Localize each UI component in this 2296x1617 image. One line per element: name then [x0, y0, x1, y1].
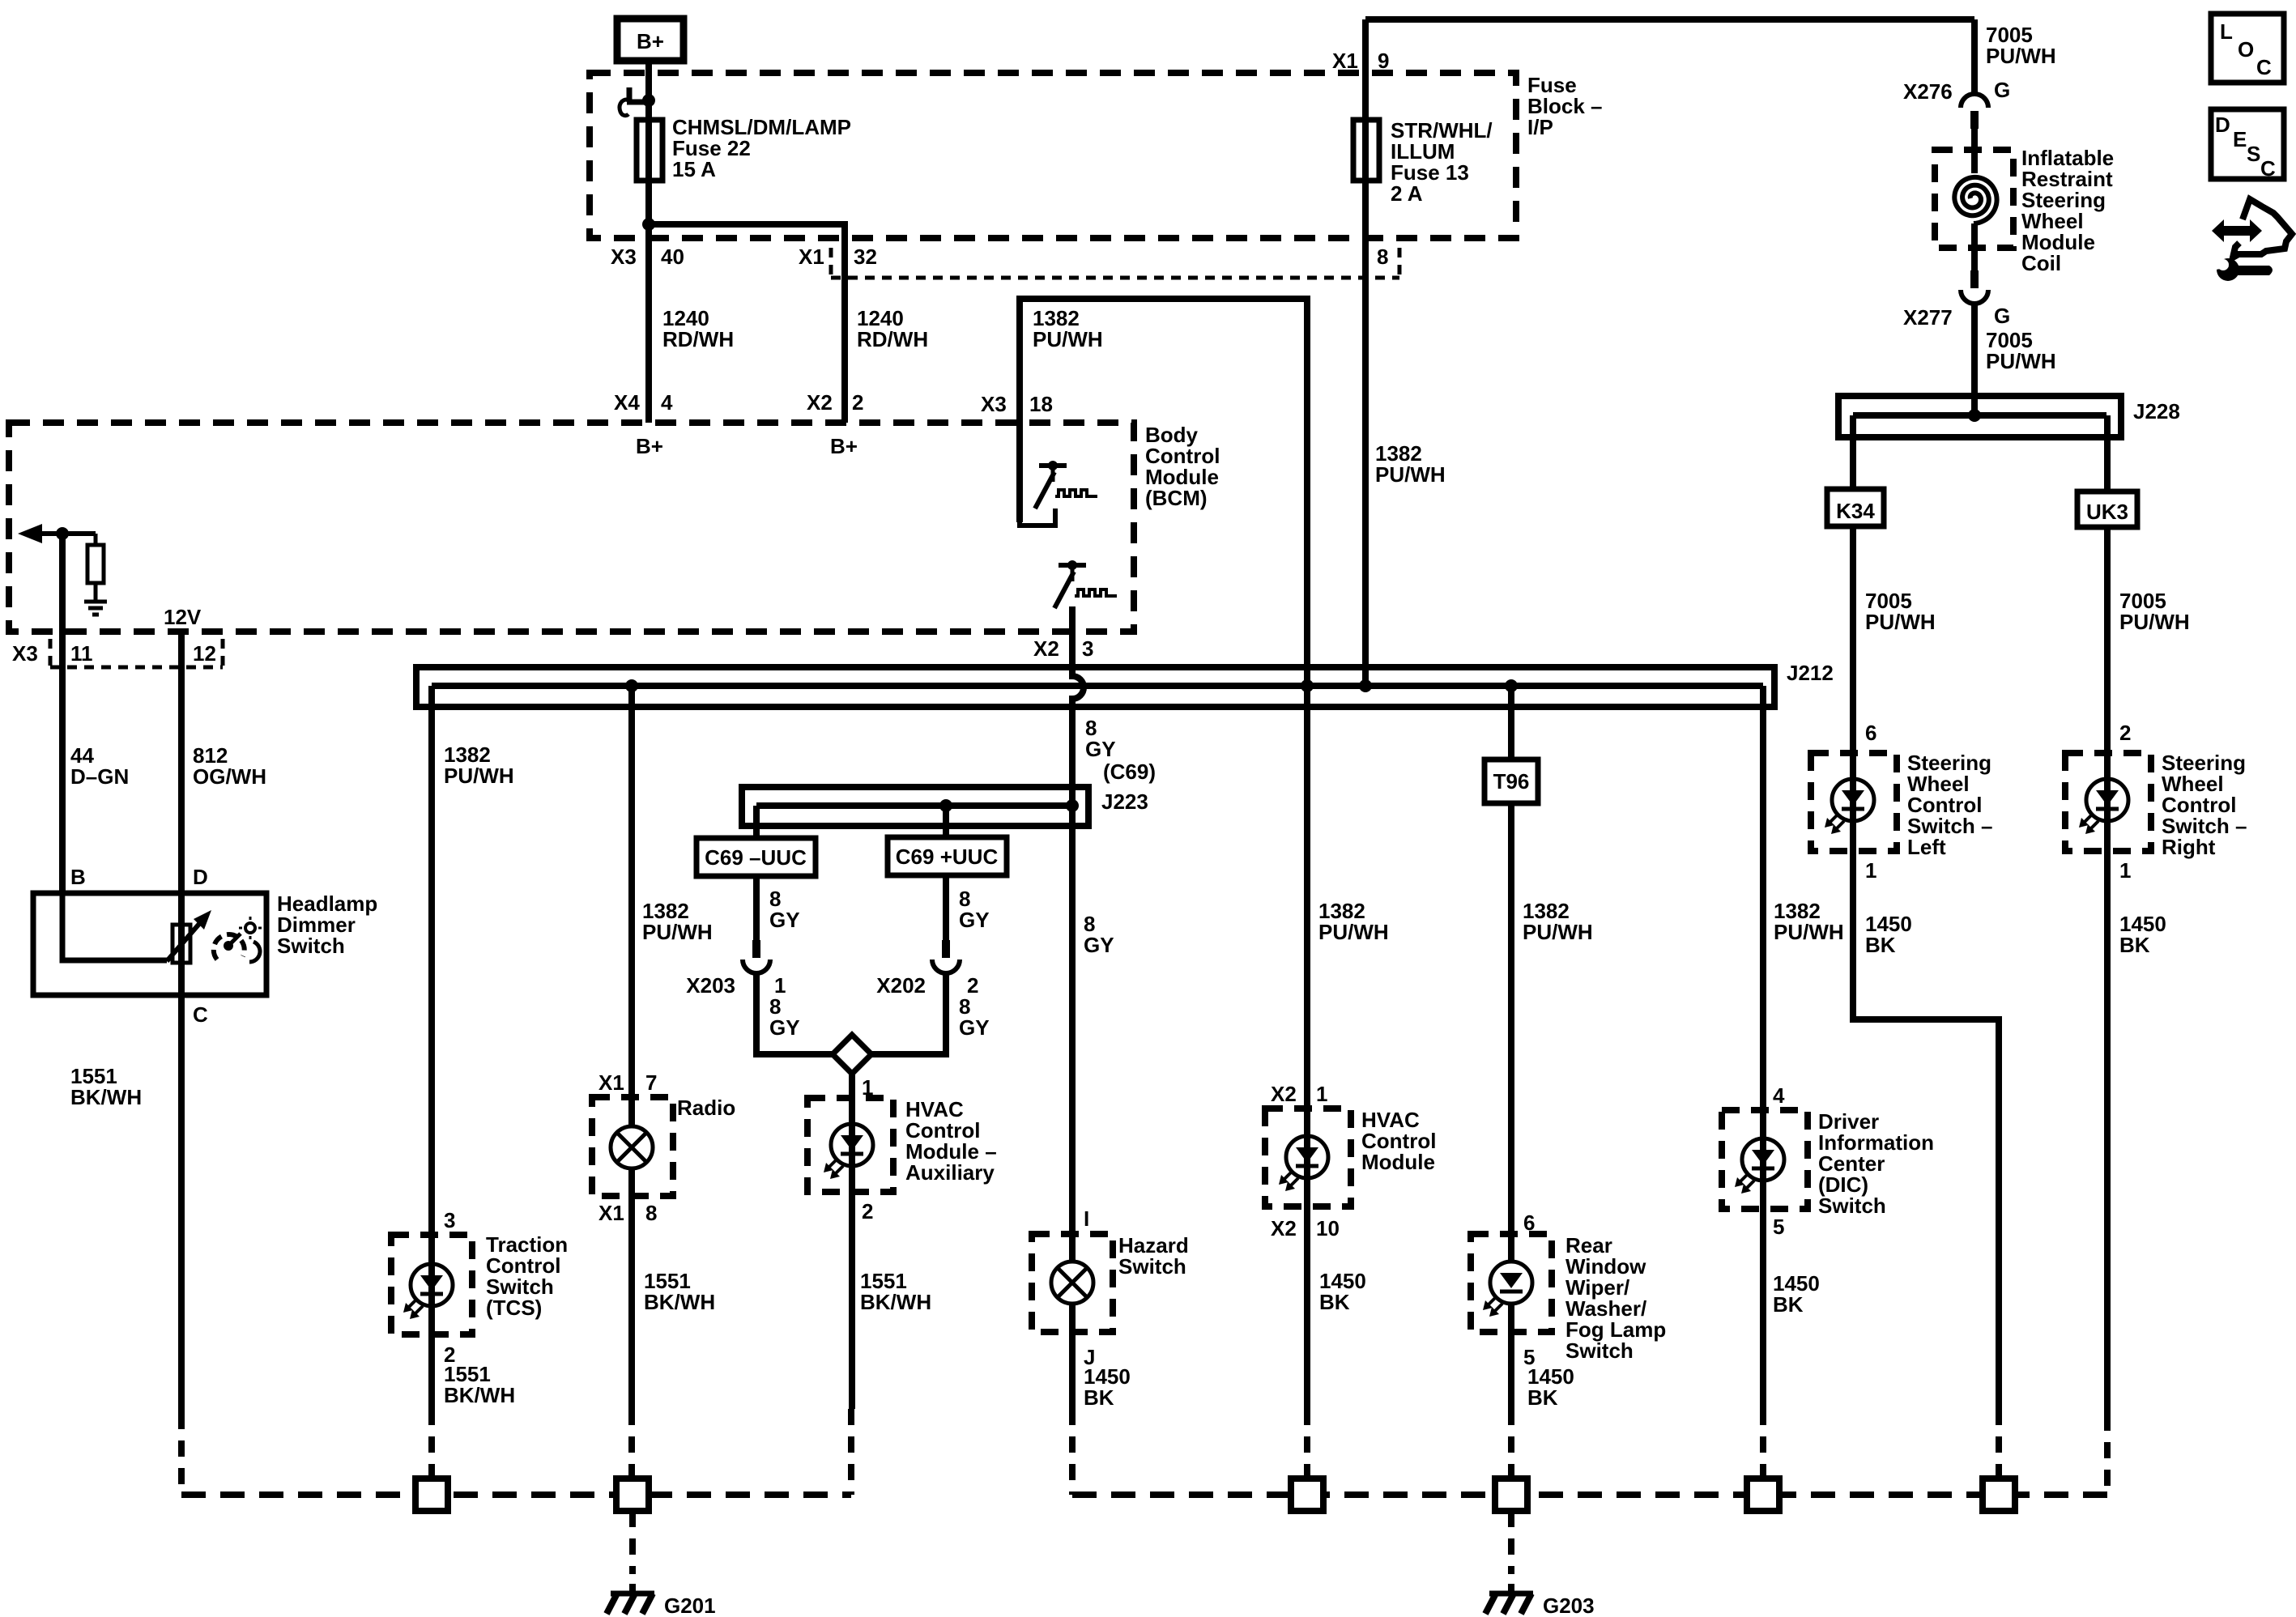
- svg-text:C: C: [2260, 156, 2276, 181]
- svg-text:1: 1: [1865, 858, 1876, 883]
- wire dashed ground drop from SWC left: [1996, 1409, 2002, 1479]
- wire 1382 PU/WH from J212 right end to DIC switch: [1760, 686, 1766, 1409]
- svg-text:2: 2: [862, 1199, 873, 1223]
- wire dashed drop to ground G203: [1508, 1511, 1514, 1574]
- node junction dot branch to X1-32: [642, 218, 655, 231]
- svg-text:OG/WH: OG/WH: [193, 764, 266, 789]
- splice pack J228 bus conductor: [1853, 412, 2106, 419]
- node junction dot J223 hazard tap: [1066, 799, 1079, 812]
- wire dashed ground drop from HVAC auxiliary: [848, 1409, 854, 1495]
- svg-text:12V: 12V: [164, 605, 202, 629]
- option box C69 +UUC: [888, 837, 1007, 875]
- node junction dot on BCM interior rail: [56, 527, 69, 540]
- wire dashed ground drop from radio: [628, 1409, 635, 1479]
- wire 1382 PU/WH from J212 through T96 to rear wiper switch: [1508, 686, 1514, 1262]
- svg-text:G: G: [1994, 78, 2010, 102]
- svg-text:3: 3: [1082, 636, 1093, 661]
- svg-text:18: 18: [1029, 392, 1053, 416]
- svg-text:PU/WH: PU/WH: [1318, 920, 1389, 944]
- wire 7005 PU/WH from X277 to splice J228: [1971, 304, 1978, 415]
- svg-text:X2: X2: [1271, 1082, 1297, 1106]
- wire 1382 PU/WH from J212 to traction control switch: [428, 686, 435, 1409]
- svg-text:S: S: [2247, 142, 2260, 166]
- svg-text:X2: X2: [807, 390, 833, 415]
- node splice square HVAC control module ground: [1291, 1479, 1323, 1511]
- node junction dot J212 T96 tap: [1505, 679, 1518, 692]
- module Inflatable Restraint Steering Wheel Module Coil dashed box: [1935, 150, 2013, 248]
- svg-text:PU/WH: PU/WH: [2119, 610, 2190, 634]
- wire 7005 PU/WH down to connector X276: [1971, 19, 1978, 92]
- switch Driver Information Center DIC dashed box: [1722, 1110, 1808, 1209]
- splice pack J223 bus conductor: [756, 802, 1074, 809]
- svg-text:PU/WH: PU/WH: [1774, 920, 1844, 944]
- svg-text:C69 +UUC: C69 +UUC: [896, 845, 999, 869]
- svg-text:O: O: [2238, 37, 2254, 62]
- device Radio dashed box: [592, 1097, 673, 1196]
- svg-text:RD/WH: RD/WH: [857, 327, 928, 351]
- svg-text:E: E: [2233, 127, 2247, 151]
- wire 8 GY from C69 +UUC to connector X202: [943, 874, 949, 940]
- wire 8 GY BCM X2-3 output with hop over splice J212 down to splice J223 and Hazard Switch: [1072, 606, 1084, 1262]
- svg-text:C: C: [2256, 55, 2272, 79]
- svg-text:(C69): (C69): [1103, 760, 1156, 784]
- wire 1382 PU/WH BCM X3-18 routed over to HVAC control module: [1020, 299, 1307, 1409]
- svg-text:X3: X3: [12, 641, 38, 666]
- svg-text:J212: J212: [1787, 661, 1834, 685]
- splice pack J212 bus conductor: [432, 683, 1763, 689]
- svg-text:C69 –UUC: C69 –UUC: [705, 845, 807, 870]
- wire from X276 into coil: [1971, 127, 1978, 173]
- svg-text:G201: G201: [664, 1594, 716, 1617]
- node splice square radio ground: [616, 1479, 649, 1511]
- svg-text:11: 11: [70, 641, 93, 666]
- LED indicator in HVAC control module: [1286, 1136, 1328, 1178]
- svg-text:4: 4: [1773, 1083, 1785, 1108]
- connector bracket dashes below fuse block pins: [829, 248, 833, 276]
- svg-text:5: 5: [1773, 1215, 1784, 1239]
- option box C69 -UUC: [696, 838, 816, 876]
- svg-text:D–GN: D–GN: [70, 764, 129, 789]
- wire from J223 to C69 -UUC option box: [753, 806, 760, 838]
- connector bracket dashes below BCM X3 pins: [49, 639, 53, 666]
- svg-text:X203: X203: [686, 973, 735, 998]
- svg-text:X2: X2: [1033, 636, 1059, 661]
- wire from coil to connector X277: [1971, 223, 1978, 270]
- svg-text:(TCS): (TCS): [486, 1296, 542, 1320]
- wire 7005 PU/WH from J228 to K34 and SWC left: [1853, 415, 1999, 1409]
- svg-text:8: 8: [645, 1201, 657, 1225]
- svg-text:X277: X277: [1903, 305, 1953, 330]
- svg-text:32: 32: [854, 245, 877, 269]
- ground earth symbol inside BCM: [84, 600, 107, 604]
- svg-text:L: L: [2220, 19, 2233, 44]
- switch Rear Window Wiper Washer Fog Lamp Switch dashed box: [1471, 1234, 1552, 1332]
- wire 1551 BK/WH from radio to ground splice: [628, 1168, 635, 1409]
- svg-text:T96: T96: [1493, 769, 1530, 794]
- svg-text:PU/WH: PU/WH: [444, 764, 514, 788]
- svg-text:X1: X1: [598, 1070, 624, 1095]
- svg-text:C: C: [193, 1002, 208, 1027]
- svg-text:J223: J223: [1101, 789, 1148, 814]
- legend box DESC: [2211, 109, 2284, 179]
- svg-text:12: 12: [193, 641, 216, 666]
- svg-text:RD/WH: RD/WH: [662, 327, 734, 351]
- node splice square SWC left ground: [1983, 1479, 2015, 1511]
- wire 8 GY from X202 to splice diamond: [871, 975, 946, 1054]
- svg-text:B+: B+: [637, 29, 664, 53]
- svg-text:X276: X276: [1903, 79, 1953, 104]
- svg-text:GY: GY: [769, 1015, 800, 1040]
- wire top feed over to steering column: [1365, 16, 1974, 23]
- svg-text:X202: X202: [876, 973, 926, 998]
- wire dashed ground run from dimmer switch pin C: [178, 1413, 185, 1495]
- node junction dot J228 feed: [1968, 409, 1981, 422]
- wire dashed ground drop from hazard switch: [1069, 1409, 1076, 1495]
- svg-text:PU/WH: PU/WH: [1375, 462, 1446, 487]
- wire 44 D-GN from BCM X3-11 to headlamp dimmer switch pin B: [59, 534, 66, 893]
- switch Headlamp Dimmer Switch box: [33, 893, 266, 995]
- svg-text:3: 3: [444, 1208, 455, 1232]
- option box UK3: [2077, 491, 2137, 527]
- svg-text:D: D: [193, 865, 208, 889]
- ground G201 chassis symbol: [611, 1591, 654, 1597]
- module HVAC Control Module Auxiliary dashed box: [807, 1098, 893, 1192]
- connector X203 in-line: [752, 940, 760, 958]
- connector X277 in-line: [1970, 270, 1979, 288]
- wire dashed ground drop from DIC switch: [1760, 1409, 1766, 1479]
- svg-text:BK/WH: BK/WH: [70, 1085, 142, 1109]
- wire from splice diamond to HVAC auxiliary: [849, 1074, 855, 1409]
- svg-text:X1: X1: [1332, 49, 1358, 73]
- svg-text:1: 1: [1316, 1082, 1327, 1106]
- svg-text:Switch: Switch: [1118, 1254, 1186, 1279]
- svg-text:Radio: Radio: [677, 1096, 735, 1120]
- lamp illumination bulb in radio: [611, 1126, 653, 1168]
- svg-text:BK: BK: [1865, 933, 1896, 957]
- switch Steering Wheel Control Switch Left dashed box: [1811, 753, 1897, 851]
- svg-text:10: 10: [1316, 1216, 1340, 1240]
- svg-text:GY: GY: [1085, 737, 1116, 761]
- svg-text:X1: X1: [598, 1201, 624, 1225]
- svg-text:BK/WH: BK/WH: [644, 1290, 715, 1314]
- svg-text:BK: BK: [1773, 1292, 1804, 1317]
- svg-text:9: 9: [1378, 49, 1389, 73]
- svg-text:GY: GY: [959, 1015, 990, 1040]
- node junction dot at top of Fuse 22: [642, 94, 655, 107]
- legend icon connector with double arrow and wrench: [2212, 219, 2262, 242]
- wire 1382 PU/WH from fuse block X1-9 down to splice J212: [1362, 19, 1369, 686]
- svg-text:PU/WH: PU/WH: [1523, 920, 1593, 944]
- splice diamond junction: [833, 1035, 871, 1074]
- switch Steering Wheel Control Switch Right dashed box: [2065, 753, 2151, 851]
- svg-text:6: 6: [1865, 721, 1876, 745]
- wire dashed ground drop from rear wiper switch: [1508, 1409, 1514, 1479]
- LED indicator in rear wiper switch: [1490, 1262, 1532, 1304]
- svg-text:BK: BK: [1527, 1385, 1558, 1410]
- svg-text:40: 40: [661, 245, 684, 269]
- node junction dot J212 radio tap: [625, 679, 638, 692]
- rheostat adjustment arrow: [167, 918, 204, 961]
- svg-text:Switch: Switch: [277, 934, 345, 958]
- wire 1240 RD/WH from B+ through Fuse 22 to BCM pin X4-4: [645, 61, 652, 423]
- svg-text:K34: K34: [1836, 499, 1875, 523]
- svg-text:Left: Left: [1907, 835, 1946, 859]
- svg-text:2: 2: [852, 390, 863, 415]
- wire 7005 PU/WH from J228 to UK3 and SWC right: [2104, 415, 2111, 1415]
- svg-text:PU/WH: PU/WH: [1986, 44, 2056, 68]
- svg-text:X4: X4: [614, 390, 640, 415]
- ground G203 chassis symbol: [1489, 1591, 1533, 1597]
- svg-text:GY: GY: [769, 908, 800, 932]
- svg-text:15 A: 15 A: [672, 157, 716, 181]
- svg-text:I/P: I/P: [1527, 115, 1553, 139]
- svg-text:BK/WH: BK/WH: [444, 1383, 515, 1407]
- svg-text:BK: BK: [2119, 933, 2150, 957]
- svg-text:2: 2: [2119, 721, 2131, 745]
- fuse block I/P dashed outline: [590, 73, 1516, 238]
- node continuation arrow inside BCM: [18, 524, 42, 543]
- option box T96: [1485, 760, 1538, 803]
- svg-text:8: 8: [1377, 245, 1388, 269]
- svg-text:7: 7: [645, 1070, 657, 1095]
- node splice square DIC ground: [1747, 1479, 1779, 1511]
- svg-text:D: D: [2215, 113, 2230, 137]
- svg-text:X3: X3: [611, 245, 637, 269]
- svg-text:PU/WH: PU/WH: [1865, 610, 1936, 634]
- wire 8 GY from X203 to splice diamond: [756, 975, 833, 1054]
- wire dashed ground bus right to G203: [1072, 1491, 2107, 1498]
- svg-text:PU/WH: PU/WH: [1033, 327, 1103, 351]
- resistor rheostat element in dimmer switch: [173, 925, 190, 963]
- svg-text:(BCM): (BCM): [1145, 486, 1208, 510]
- svg-text:X3: X3: [981, 392, 1007, 416]
- lamp illumination bulb in hazard switch: [1051, 1262, 1093, 1304]
- svg-text:B: B: [70, 865, 86, 889]
- svg-text:2 A: 2 A: [1391, 181, 1423, 206]
- power symbol B+ battery feed box: [617, 19, 684, 61]
- wire dashed drop to ground G201: [629, 1511, 636, 1574]
- node splice square TCS ground: [415, 1479, 448, 1511]
- module Body Control Module BCM dashed outline: [9, 423, 1134, 632]
- node junction dot J223 +UUC tap: [939, 799, 952, 812]
- svg-text:PU/WH: PU/WH: [642, 920, 713, 944]
- wire 8 GY from C69 -UUC to connector X203: [753, 876, 760, 940]
- svg-text:I: I: [1084, 1206, 1089, 1231]
- wire dashed ground drop from HVAC control module: [1304, 1409, 1310, 1479]
- svg-text:BK: BK: [1084, 1385, 1114, 1410]
- wire dashed ground drop from SWC right: [2104, 1415, 2111, 1495]
- LED indicator in HVAC auxiliary: [831, 1124, 873, 1166]
- svg-text:BK/WH: BK/WH: [860, 1290, 931, 1314]
- svg-text:Switch: Switch: [1565, 1338, 1634, 1363]
- wire 1382 PU/WH from J212 to radio: [628, 686, 635, 1126]
- wire 812 OG/WH from BCM X3-12 to headlamp dimmer switch pin D: [178, 628, 185, 1413]
- node junction dot J212 HVAC tap: [1301, 679, 1314, 692]
- splice pack J212 outer box: [416, 667, 1774, 707]
- fusible-element hook on Fuse 22 feed: [627, 100, 649, 105]
- svg-text:1: 1: [2119, 858, 2131, 883]
- svg-text:Coil: Coil: [2021, 251, 2061, 275]
- svg-text:Auxiliary: Auxiliary: [905, 1160, 995, 1185]
- svg-text:G: G: [1994, 304, 2010, 328]
- svg-text:PU/WH: PU/WH: [1986, 349, 2056, 373]
- svg-text:G203: G203: [1543, 1594, 1595, 1617]
- svg-text:J228: J228: [2133, 399, 2180, 423]
- connector X276 in-line: [1961, 94, 1988, 108]
- wire dashed ground bus left to G201: [181, 1491, 851, 1498]
- svg-text:GY: GY: [959, 908, 990, 932]
- legend box LOC: [2211, 14, 2284, 83]
- svg-text:Module: Module: [1361, 1150, 1435, 1174]
- fuse STR/WHL/ILLUM Fuse 13 2A: [1353, 120, 1379, 181]
- option box K34: [1827, 489, 1884, 526]
- svg-text:BK: BK: [1319, 1290, 1350, 1314]
- svg-text:B+: B+: [636, 434, 663, 458]
- dimmer gauge icon: [214, 934, 245, 960]
- wire driver1 output cup: [1020, 509, 1055, 526]
- connector X202 in-line: [942, 940, 950, 958]
- switch Hazard Switch dashed box: [1032, 1234, 1113, 1332]
- wire dimmer interior from pin B to rheostat: [62, 893, 167, 960]
- splice pack J223 outer box: [742, 787, 1088, 826]
- LED indicator in TCS: [411, 1264, 453, 1306]
- LED indicator in SWC left: [1832, 779, 1874, 821]
- svg-text:Switch: Switch: [1818, 1194, 1886, 1218]
- wire dashed ground drop from TCS: [428, 1409, 435, 1479]
- svg-text:B+: B+: [830, 434, 858, 458]
- fuse CHMSL/DM/LAMP Fuse 22 15A: [637, 120, 662, 181]
- node splice square rear wiper ground: [1495, 1479, 1527, 1511]
- LED indicator in DIC switch: [1742, 1138, 1784, 1181]
- svg-text:Right: Right: [2162, 835, 2216, 859]
- module HVAC Control Module dashed box: [1265, 1108, 1351, 1206]
- svg-text:X2: X2: [1271, 1216, 1297, 1240]
- LED indicator in SWC right: [2086, 779, 2128, 821]
- wire from J223 to C69 +UUC option box: [943, 806, 949, 837]
- svg-text:4: 4: [661, 390, 673, 415]
- svg-text:X1: X1: [799, 245, 824, 269]
- node junction dot J212 feed from fuse 13: [1359, 679, 1372, 692]
- resistor BCM interior pull-up: [94, 534, 98, 545]
- svg-text:UK3: UK3: [2086, 500, 2128, 524]
- op-amp U1 BCM interior dimming driver 1: [1039, 463, 1067, 468]
- svg-text:GY: GY: [1084, 933, 1114, 957]
- wire branch 1240 RD/WH to fuse block pin X1-32: [649, 224, 845, 423]
- op-amp U2 BCM interior dimming driver 2: [1059, 563, 1086, 568]
- switch Traction Control Switch dashed box: [391, 1235, 472, 1334]
- splice pack J228 outer box: [1838, 396, 2121, 437]
- inductor clockspring coil symbol: [1954, 177, 1996, 223]
